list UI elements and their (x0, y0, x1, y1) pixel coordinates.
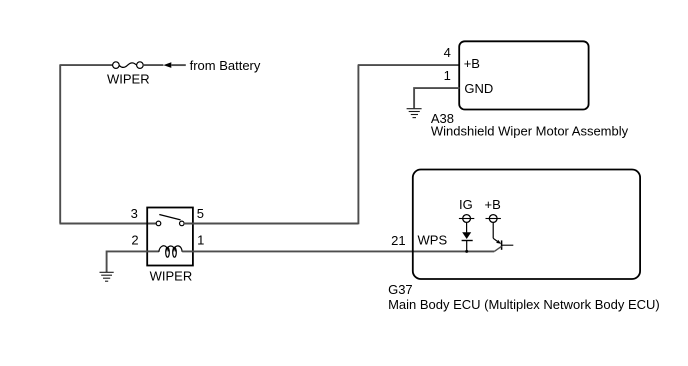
svg-text:+B: +B (485, 197, 501, 212)
arrow from Battery (163, 62, 171, 68)
wire relay pin 5 to vertical riser (184, 223, 359, 225)
wire GND to ground (414, 88, 459, 108)
svg-text:21: 21 (391, 233, 405, 248)
diode D (IG to WPS) (462, 222, 473, 251)
svg-text:1: 1 (444, 68, 451, 83)
wire to relay pin 3 (60, 223, 157, 225)
wire fuse left segment (60, 64, 112, 66)
switch blade (159, 215, 180, 220)
svg-text:5: 5 (197, 206, 204, 221)
svg-text:Main Body ECU (Multiplex Netwo: Main Body ECU (Multiplex Network Body EC… (388, 297, 660, 312)
transistor Q (PNP) (493, 222, 513, 251)
svg-text:WIPER: WIPER (150, 268, 193, 283)
wire vertical riser to +B row (357, 65, 359, 224)
svg-text:IG: IG (459, 197, 473, 212)
svg-text:GND: GND (464, 81, 493, 96)
A38 connector box (459, 41, 588, 109)
switch contact right (180, 221, 185, 226)
junction dot WPS/diode (465, 250, 468, 253)
wire to A38 pin 4 (+B) (358, 64, 460, 66)
coil left wire (pin 2) (147, 250, 159, 252)
svg-text:3: 3 (131, 206, 138, 221)
svg-text:G37: G37 (388, 282, 413, 297)
ground (relay) (100, 272, 114, 281)
svg-text:WIPER: WIPER (107, 71, 150, 86)
svg-text:from Battery: from Battery (190, 58, 261, 73)
svg-text:Windshield Wiper Motor Assembl: Windshield Wiper Motor Assembly (431, 124, 629, 139)
switch contact left (156, 221, 161, 226)
svg-text:2: 2 (131, 233, 138, 248)
wire relay pin 1 to ECU pin 21 (WPS) (182, 250, 494, 252)
relay coil (159, 246, 182, 257)
ground (A38) (407, 109, 422, 118)
svg-text:4: 4 (444, 45, 451, 60)
wire fuse to arrow (143, 64, 163, 66)
wire pin 2 to ground (107, 251, 148, 272)
svg-text:1: 1 (197, 233, 204, 248)
relay box WIPER switch (147, 208, 193, 266)
ECU box G37 (413, 170, 640, 280)
IG supply circle (459, 215, 474, 223)
fuse WIPER (113, 62, 144, 69)
svg-text:+B: +B (464, 56, 480, 71)
+B supply circle (486, 215, 501, 223)
svg-text:WPS: WPS (418, 233, 448, 248)
wire arrow tail (171, 64, 186, 66)
wire left vertical from fuse to relay (59, 64, 61, 223)
